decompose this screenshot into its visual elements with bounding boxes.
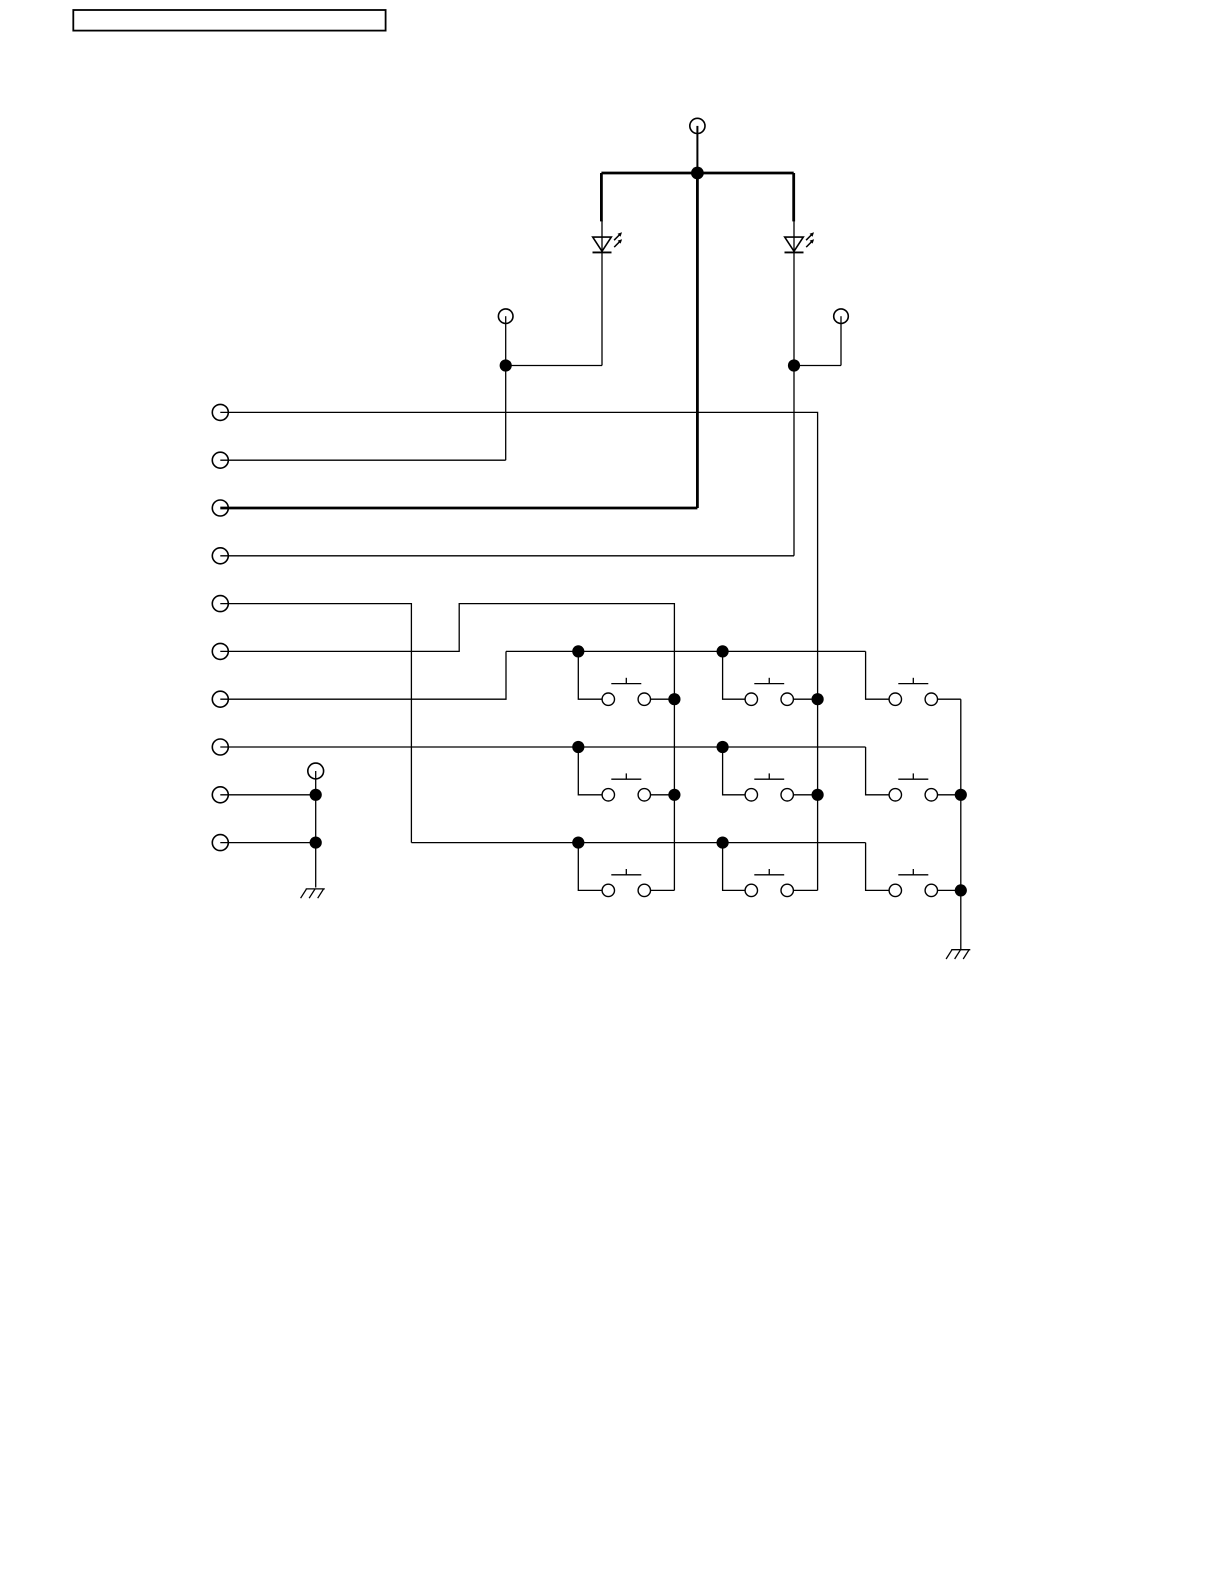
terminal P2 bbox=[498, 309, 513, 324]
node T9 ground junction bbox=[310, 789, 322, 801]
wire net row 1 bbox=[506, 650, 866, 652]
wire feed SW5 bbox=[723, 747, 746, 795]
wire T9 row bbox=[220, 794, 315, 796]
push-button switch SW6 bbox=[889, 773, 937, 801]
push-button switch SW5 bbox=[745, 773, 793, 801]
wire net row 3 bbox=[411, 842, 865, 844]
wire SW2 output bbox=[793, 698, 817, 700]
node ground column junction row 3 bbox=[955, 884, 967, 896]
node net 1 junction col 1 bbox=[572, 645, 584, 657]
push-button switch SW4 bbox=[602, 773, 650, 801]
wire thick drop right to LED D2 bbox=[792, 173, 795, 221]
wire T6 row bbox=[220, 604, 674, 891]
node D1 net junction bbox=[500, 359, 512, 371]
wire T2 row bbox=[220, 459, 505, 461]
wire T5 row bbox=[220, 604, 411, 843]
terminal T6 bbox=[212, 643, 228, 659]
wire D1 cathode down bbox=[601, 252, 603, 365]
wire SW1 output bbox=[651, 698, 675, 700]
wire net 2 feed to SW6 bbox=[866, 747, 890, 795]
wire feed SW2 bbox=[723, 651, 746, 699]
wire SW3 output bbox=[938, 698, 961, 700]
node T10 ground junction bbox=[310, 837, 322, 849]
wire SW4 output bbox=[651, 794, 675, 796]
wire T10 row bbox=[220, 842, 315, 844]
push-button switch SW8 bbox=[745, 869, 793, 897]
push-button switch SW9 bbox=[889, 869, 937, 897]
node column 2 junction row 1 bbox=[812, 693, 824, 705]
ground (right) bbox=[946, 950, 970, 959]
wire to T2 bbox=[505, 366, 507, 461]
terminal T10 bbox=[212, 835, 228, 851]
wire thick center vertical bbox=[696, 173, 699, 508]
push-button switch SW2 bbox=[745, 678, 793, 706]
wire D1 net horizontal bbox=[506, 365, 602, 367]
wire ground net vertical bbox=[315, 771, 317, 888]
ground (left) bbox=[301, 889, 325, 898]
terminal T3 bbox=[212, 500, 228, 516]
wire T8 row / net row 2 bbox=[220, 746, 865, 748]
terminal P3 bbox=[834, 309, 849, 324]
push-button switch SW1 bbox=[602, 678, 650, 706]
wire P3 stem bbox=[840, 316, 842, 365]
LED D1 bbox=[593, 232, 623, 252]
node net 1 junction col 2 bbox=[717, 645, 729, 657]
wire feed SW4 bbox=[578, 747, 602, 795]
wire feed SW1 bbox=[578, 651, 602, 699]
wire D1 anode lead bbox=[601, 221, 603, 253]
node net 2 junction col 2 bbox=[717, 741, 729, 753]
node net 2 junction col 1 bbox=[572, 741, 584, 753]
wire net 3 feed to SW9 bbox=[866, 843, 890, 891]
terminal T2 bbox=[212, 452, 228, 468]
node net 3 junction col 1 bbox=[572, 837, 584, 849]
wire P2 stem bbox=[505, 316, 507, 365]
wire SW8 output bbox=[793, 889, 817, 891]
terminal T9 bbox=[212, 787, 228, 803]
wire thick drop left to LED D1 bbox=[600, 173, 603, 221]
thick bus horizontal bbox=[601, 172, 793, 175]
wire feed SW7 bbox=[578, 843, 602, 891]
wire feed SW8 bbox=[723, 843, 746, 891]
node net 3 junction col 2 bbox=[717, 837, 729, 849]
node supply junction bbox=[691, 167, 704, 180]
node column 1 junction row 2 bbox=[668, 789, 680, 801]
node column 2 junction row 2 bbox=[812, 789, 824, 801]
wire P1 stem bbox=[696, 126, 698, 173]
wire SW9 output bbox=[938, 889, 961, 891]
node column 1 junction row 1 bbox=[668, 693, 680, 705]
terminal T7 bbox=[212, 691, 228, 707]
wire D2 cathode down bbox=[793, 252, 795, 555]
wire T4 row bbox=[220, 555, 794, 557]
terminal T8 bbox=[212, 739, 228, 755]
terminal T5 bbox=[212, 596, 228, 612]
node D2 net junction bbox=[788, 359, 800, 371]
wire T3 row (thick) bbox=[220, 507, 697, 510]
terminal T1 bbox=[212, 404, 228, 420]
wire SW6 output bbox=[938, 794, 961, 796]
push-button switch SW7 bbox=[602, 869, 650, 897]
wire SW7 output bbox=[651, 889, 675, 891]
terminal T4 bbox=[212, 548, 228, 564]
wire SW5 output bbox=[793, 794, 817, 796]
node ground column junction row 2 bbox=[955, 789, 967, 801]
terminal P1 (supply, top) bbox=[690, 118, 705, 133]
wire T1 row bbox=[220, 412, 817, 890]
terminal P4 (ground ref) bbox=[308, 763, 324, 779]
wire ground column vertical bbox=[960, 699, 962, 950]
wire T7 row bbox=[220, 651, 506, 699]
LED D2 bbox=[785, 232, 815, 252]
title block (empty) bbox=[73, 10, 385, 31]
push-button switch SW3 bbox=[889, 678, 937, 706]
wire P3 to D2 net bbox=[794, 365, 841, 367]
wire net 1 feed to SW3 bbox=[866, 651, 890, 699]
wire D2 anode lead bbox=[793, 221, 795, 253]
